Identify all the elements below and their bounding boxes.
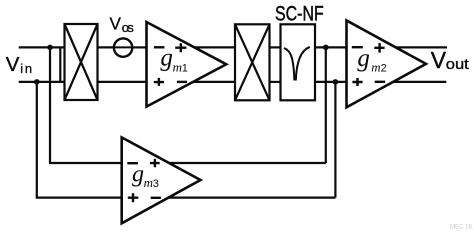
- chopper CH1 box: [65, 24, 98, 100]
- label gm1: [160, 45, 188, 75]
- wire CH2 to SC-NF bottom: [270, 81, 281, 83]
- label SC-NF: [275, 3, 324, 26]
- svg-text:os: os: [122, 20, 135, 35]
- svg-text:g: g: [160, 45, 173, 72]
- node junction dot on bottom input wire: [34, 79, 40, 85]
- pin gm2 plus top-right: [374, 43, 384, 53]
- wire CH1 to gm1 bottom: [98, 81, 147, 83]
- svg-text:V: V: [6, 53, 20, 76]
- op-amp gm2 triangle: [347, 21, 427, 108]
- watermark: [450, 225, 474, 231]
- pin gm2 minus top-left: [352, 46, 363, 48]
- pin gm1 plus bottom-left: [154, 78, 164, 86]
- wire gm2 output bottom: [393, 81, 446, 83]
- pin gm1 minus bottom-right: [177, 81, 187, 83]
- wire Vin- bottom input: [19, 81, 65, 83]
- svg-text:V: V: [431, 47, 447, 73]
- wire vertical link between input wires: [59, 47, 61, 82]
- pin gm3 plus top-right: [150, 159, 160, 167]
- svg-text:in: in: [20, 61, 32, 76]
- svg-text:m: m: [144, 175, 153, 190]
- svg-text:V: V: [110, 13, 122, 33]
- svg-text:g: g: [357, 45, 370, 72]
- filter SC-NF notch curve: [284, 48, 295, 80]
- wire Vos to gm1 top: [133, 46, 147, 48]
- op-amp gm3 triangle: [122, 137, 201, 223]
- svg-text:out: out: [446, 57, 469, 73]
- wire gm1 to CH2 top: [194, 46, 235, 48]
- wire gm3 output bottom riser: [334, 82, 336, 198]
- wire CH1 to Vos circle: [98, 46, 115, 48]
- svg-text:SC-NF: SC-NF: [275, 3, 324, 26]
- node Vin label: [6, 53, 32, 76]
- wire Vin+ top input: [19, 46, 65, 48]
- svg-text:1: 1: [182, 62, 188, 74]
- pin gm2 plus bottom-left: [352, 78, 362, 86]
- pin gm1 plus top-right: [175, 43, 186, 52]
- pin gm3 minus bottom-right: [151, 197, 161, 199]
- svg-text:m: m: [371, 60, 380, 75]
- op-amp gm1 triangle: [147, 22, 227, 107]
- svg-text:m: m: [173, 59, 182, 74]
- label gm2: [357, 45, 386, 75]
- wire gm2 output top: [396, 46, 448, 48]
- pin gm3 plus bottom-left: [128, 193, 139, 202]
- svg-text:2: 2: [381, 63, 387, 75]
- svg-text:g: g: [132, 161, 144, 187]
- chopper CH2 box: [235, 24, 270, 100]
- wire feedforward top branch down from top-wire dot: [50, 47, 122, 163]
- label Vos: [110, 13, 135, 35]
- wire SC-NF to gm2 top: [315, 46, 347, 48]
- node summing dot top: [323, 45, 329, 51]
- pin gm2 minus bottom-right: [375, 81, 386, 83]
- wire gm1 to CH2 bottom: [193, 81, 235, 83]
- svg-text:3: 3: [153, 178, 159, 190]
- svg-text:MEC 18 1: MEC 18 1: [450, 225, 474, 230]
- chopper CH2 cross: [235, 24, 270, 100]
- wire gm3 output top to summing node: [169, 162, 326, 164]
- filter SC-NF box: [281, 24, 316, 100]
- label gm3: [132, 161, 159, 190]
- chopper CH1 cross: [65, 24, 98, 100]
- wire CH2 to SC-NF top: [270, 46, 281, 48]
- source Vos offset circle: [114, 38, 132, 56]
- label Vout: [431, 47, 469, 73]
- node summing dot bottom: [333, 79, 339, 85]
- wire gm3 output top riser: [325, 47, 327, 163]
- wire SC-NF to gm2 bottom: [315, 81, 347, 83]
- node junction dot on top input wire: [47, 45, 53, 51]
- pin gm1 minus top-left: [154, 46, 165, 48]
- wire feedforward bottom branch down from bottom-wire dot: [37, 82, 122, 198]
- pin gm3 minus top-left: [127, 162, 138, 164]
- wire gm3 output bottom to summing node: [169, 197, 336, 199]
